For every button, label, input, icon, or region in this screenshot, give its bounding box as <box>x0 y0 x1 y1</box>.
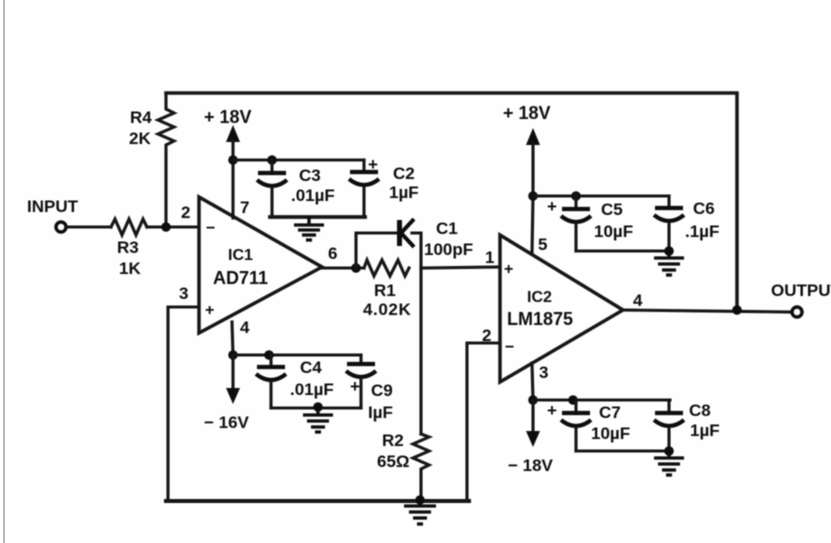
op-amp IC1 <box>199 197 322 333</box>
op-amp IC2 <box>500 235 623 382</box>
capacitor C2 <box>349 160 379 217</box>
ground C5 C6 <box>654 251 684 275</box>
svg-text:5: 5 <box>538 235 547 254</box>
input terminal <box>56 222 66 232</box>
wire IC2 pin 5 <box>532 196 533 254</box>
power +18V left <box>226 125 240 218</box>
svg-text:C7: C7 <box>599 403 621 422</box>
svg-text:C5: C5 <box>601 200 623 219</box>
svg-text:AD711: AD711 <box>213 268 268 288</box>
svg-text:−: − <box>505 339 514 356</box>
ground C7 C8 <box>654 451 684 475</box>
svg-text:.01µF: .01µF <box>290 380 334 399</box>
wire C5 bottom rail <box>576 249 669 252</box>
svg-text:3: 3 <box>179 284 188 303</box>
svg-text:− 16V: − 16V <box>204 413 250 432</box>
capacitor C1 <box>356 219 421 268</box>
output terminal <box>792 307 802 317</box>
ground main <box>404 500 436 524</box>
node C6 bottom <box>664 246 674 256</box>
wire IC2 pin 3 <box>532 363 533 400</box>
ground C3 C2 <box>294 217 324 240</box>
wire C4 bottom rail <box>271 406 361 409</box>
wire R3 to IC1 pin 2 <box>147 225 199 228</box>
node C7 top <box>568 395 578 405</box>
wire R1 node down to R2 <box>419 268 422 434</box>
ground C4 C9 <box>303 408 333 432</box>
capacitor C5 <box>561 196 591 251</box>
wire C7 bottom rail <box>576 449 669 452</box>
svg-text:10µF: 10µF <box>594 222 633 241</box>
resistor R2 <box>413 434 429 500</box>
svg-text:C8: C8 <box>689 401 711 420</box>
svg-text:100pF: 100pF <box>424 240 473 259</box>
svg-text:R1: R1 <box>374 281 396 300</box>
svg-text:+: + <box>205 302 214 319</box>
capacitor C8 <box>654 400 684 451</box>
wire C7 top rail <box>533 398 670 401</box>
capacitor C3 <box>257 160 287 217</box>
wire C5 top rail <box>533 194 669 197</box>
svg-text:3: 3 <box>539 363 548 382</box>
wire C3 top rail <box>233 158 364 161</box>
svg-text:OUTPUT: OUTPUT <box>771 281 831 300</box>
svg-text:4: 4 <box>633 291 643 310</box>
svg-text:1µF: 1µF <box>690 421 720 440</box>
svg-text:+: + <box>547 401 557 420</box>
svg-text:IµF: IµF <box>368 403 393 422</box>
wire IC1 pin 4 <box>232 322 233 355</box>
svg-text:+: + <box>350 377 360 396</box>
capacitor C9 <box>346 355 376 408</box>
svg-text:IC1: IC1 <box>228 247 253 264</box>
capacitor C4 <box>256 355 286 408</box>
svg-text:C9: C9 <box>371 381 393 400</box>
svg-text:C6: C6 <box>693 199 715 218</box>
svg-text:IC2: IC2 <box>527 289 552 306</box>
svg-text:C1: C1 <box>436 219 458 238</box>
svg-text:2K: 2K <box>129 129 151 148</box>
node +18V right branch <box>528 191 538 201</box>
capacitor C7 <box>561 400 591 451</box>
svg-text:C3: C3 <box>299 166 321 185</box>
resistor R4 <box>158 93 174 227</box>
svg-text:C4: C4 <box>300 358 322 377</box>
resistor R1 <box>364 260 409 276</box>
node C5 top <box>571 191 581 201</box>
svg-text:7: 7 <box>240 198 249 217</box>
svg-text:+ 18V: + 18V <box>204 107 252 127</box>
svg-text:R3: R3 <box>117 238 139 257</box>
svg-text:−: − <box>206 220 215 237</box>
svg-text:1: 1 <box>485 248 494 267</box>
wire C4 top rail <box>233 353 361 356</box>
node C4 ground <box>313 402 323 412</box>
svg-text:.1µF: .1µF <box>685 222 719 241</box>
svg-text:R2: R2 <box>382 431 404 450</box>
svg-text:10µF: 10µF <box>591 424 630 443</box>
node pin 4 junction <box>228 350 238 360</box>
svg-text:6: 6 <box>328 244 337 263</box>
svg-text:+ 18V: + 18V <box>503 103 551 123</box>
wire IC1 pin 3 to bottom rail <box>166 307 500 501</box>
svg-text:4.02K: 4.02K <box>363 300 411 319</box>
power +18V right <box>526 128 540 196</box>
wire input to R3 <box>67 225 111 228</box>
svg-text:+: + <box>504 261 513 278</box>
svg-text:+: + <box>368 155 378 174</box>
node C8 bottom <box>664 446 674 456</box>
wire IC1 output <box>322 266 364 269</box>
node IC1 output junction <box>351 263 361 273</box>
svg-text:65Ω: 65Ω <box>377 452 410 471</box>
svg-text:+: + <box>547 197 557 216</box>
node input junction <box>161 222 171 232</box>
svg-text:1K: 1K <box>119 259 141 278</box>
svg-text:1µF: 1µF <box>389 183 419 202</box>
svg-text:R4: R4 <box>130 108 152 127</box>
node output junction <box>732 305 742 315</box>
power -16V <box>226 355 240 404</box>
node ground junction <box>415 495 425 505</box>
svg-text:2: 2 <box>181 203 190 222</box>
node C4 top <box>264 350 274 360</box>
svg-text:.01µF: .01µF <box>291 186 335 205</box>
wire top feedback rail <box>166 93 737 310</box>
wire IC2 output <box>623 310 791 312</box>
svg-text:− 18V: − 18V <box>508 456 554 475</box>
svg-text:LM1875: LM1875 <box>507 309 573 329</box>
wire to IC2 pin 1 <box>421 267 500 268</box>
node C3 top <box>267 155 277 165</box>
resistor R3 <box>111 219 147 235</box>
svg-text:2: 2 <box>482 326 491 345</box>
capacitor C6 <box>654 196 684 251</box>
svg-text:4: 4 <box>240 318 250 337</box>
node pin 3 junction <box>528 395 538 405</box>
node +18V left branch <box>228 155 238 165</box>
svg-text:INPUT: INPUT <box>27 197 79 216</box>
svg-text:C2: C2 <box>393 164 415 183</box>
power -18V <box>526 400 540 447</box>
wire C3 bottom rail <box>270 215 365 219</box>
